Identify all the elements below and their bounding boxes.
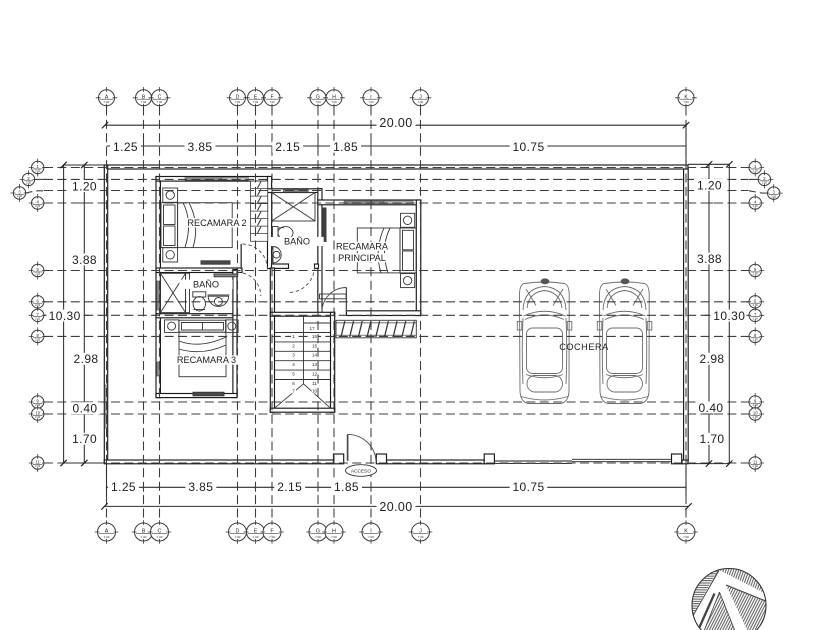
svg-text:2.00: 2.00 (753, 338, 759, 342)
svg-text:7.00: 7.00 (157, 535, 163, 539)
svg-text:2.00: 2.00 (35, 169, 41, 173)
svg-text:COCHERA: COCHERA (559, 342, 609, 352)
svg-text:2.00: 2.00 (753, 272, 759, 276)
svg-text:16: 16 (312, 334, 318, 339)
svg-text:RECAMARA: RECAMARA (336, 242, 389, 252)
svg-text:7.00: 7.00 (418, 100, 424, 104)
svg-text:7.00: 7.00 (104, 100, 110, 104)
svg-text:7.00: 7.00 (683, 100, 689, 104)
svg-text:4: 4 (292, 362, 295, 367)
svg-text:1.70: 1.70 (72, 432, 97, 446)
svg-text:2.00: 2.00 (17, 194, 23, 198)
svg-text:7.00: 7.00 (141, 535, 147, 539)
svg-text:7.00: 7.00 (315, 535, 321, 539)
svg-text:10.30: 10.30 (49, 309, 81, 323)
svg-text:1.85: 1.85 (334, 480, 359, 494)
svg-text:7.00: 7.00 (418, 535, 424, 539)
svg-text:10.75: 10.75 (512, 140, 544, 154)
svg-text:17: 17 (309, 326, 315, 331)
svg-text:2: 2 (292, 343, 295, 348)
svg-text:11: 11 (753, 460, 758, 465)
svg-text:3: 3 (292, 353, 295, 358)
svg-text:3.85: 3.85 (188, 480, 213, 494)
svg-text:10: 10 (753, 411, 758, 416)
svg-text:2.00: 2.00 (762, 181, 768, 185)
svg-text:7.00: 7.00 (157, 100, 163, 104)
svg-text:H: H (332, 94, 336, 100)
svg-text:J: J (419, 529, 422, 535)
svg-text:2.15: 2.15 (275, 140, 300, 154)
svg-text:F: F (270, 94, 273, 100)
svg-text:7.00: 7.00 (235, 535, 241, 539)
svg-text:10: 10 (312, 389, 318, 394)
svg-text:7.00: 7.00 (253, 100, 259, 104)
svg-text:10.30: 10.30 (713, 309, 745, 323)
svg-text:1.70: 1.70 (700, 432, 725, 446)
svg-text:1.20: 1.20 (697, 178, 722, 192)
svg-text:7.00: 7.00 (269, 100, 275, 104)
svg-text:5: 5 (292, 372, 295, 377)
svg-text:7.00: 7.00 (253, 535, 259, 539)
svg-text:2.15: 2.15 (277, 480, 302, 494)
svg-text:2.00: 2.00 (35, 204, 41, 208)
svg-text:11: 11 (312, 381, 317, 386)
svg-text:1.25: 1.25 (111, 480, 136, 494)
svg-text:7: 7 (292, 389, 295, 394)
svg-text:A: A (105, 529, 109, 535)
svg-text:K: K (684, 529, 688, 535)
svg-text:3.85: 3.85 (188, 140, 213, 154)
svg-text:7.00: 7.00 (269, 535, 275, 539)
svg-text:G: G (316, 94, 320, 100)
svg-text:7.00: 7.00 (331, 100, 337, 104)
svg-text:1.20: 1.20 (72, 179, 97, 193)
svg-text:14: 14 (312, 353, 318, 358)
svg-text:2.00: 2.00 (35, 317, 41, 321)
svg-text:2.00: 2.00 (26, 181, 32, 185)
svg-text:RECAMARA 2: RECAMARA 2 (187, 218, 246, 228)
svg-text:I: I (370, 94, 371, 100)
svg-text:20.00: 20.00 (379, 500, 412, 514)
svg-text:1.25: 1.25 (113, 140, 138, 154)
svg-text:12: 12 (312, 372, 318, 377)
svg-text:2.00: 2.00 (753, 204, 759, 208)
svg-text:0.40: 0.40 (699, 401, 724, 415)
svg-text:7.00: 7.00 (331, 535, 337, 539)
svg-text:E: E (254, 529, 258, 535)
svg-text:15: 15 (312, 343, 318, 348)
svg-text:2.98: 2.98 (700, 352, 725, 366)
svg-text:D: D (236, 529, 240, 535)
svg-text:2.00: 2.00 (753, 415, 759, 419)
svg-text:2.00: 2.00 (35, 272, 41, 276)
svg-text:20.00: 20.00 (379, 116, 412, 130)
svg-text:7.00: 7.00 (368, 100, 374, 104)
svg-text:BAÑO: BAÑO (284, 237, 310, 247)
svg-text:2.00: 2.00 (753, 317, 759, 321)
svg-text:B: B (142, 529, 146, 535)
svg-text:13: 13 (312, 362, 318, 367)
svg-text:2.98: 2.98 (74, 352, 99, 366)
svg-text:PRINCIPAL: PRINCIPAL (338, 253, 386, 263)
svg-text:H: H (332, 529, 336, 535)
svg-text:2.00: 2.00 (35, 338, 41, 342)
svg-text:7.00: 7.00 (315, 100, 321, 104)
svg-text:6: 6 (292, 381, 295, 386)
svg-text:ACCESO: ACCESO (351, 468, 372, 474)
svg-text:10: 10 (35, 411, 40, 416)
svg-text:11: 11 (36, 460, 41, 465)
svg-text:2.00: 2.00 (35, 415, 41, 419)
svg-text:2.00: 2.00 (753, 169, 759, 173)
svg-text:BAÑO: BAÑO (193, 280, 219, 290)
svg-text:I: I (370, 529, 372, 535)
svg-text:1: 1 (292, 334, 295, 339)
svg-text:C: C (158, 94, 162, 100)
svg-text:RECAMARA 3: RECAMARA 3 (177, 355, 236, 365)
svg-text:G: G (316, 529, 320, 535)
svg-text:C: C (158, 529, 162, 535)
svg-text:7.00: 7.00 (141, 100, 147, 104)
svg-text:0.40: 0.40 (73, 401, 98, 415)
svg-text:3.88: 3.88 (72, 253, 97, 267)
svg-text:2.00: 2.00 (771, 194, 777, 198)
svg-text:2.00: 2.00 (753, 464, 759, 468)
svg-text:7.00: 7.00 (683, 535, 689, 539)
svg-text:D: D (236, 94, 240, 100)
svg-text:3.88: 3.88 (697, 252, 722, 266)
svg-text:7.00: 7.00 (104, 535, 110, 539)
svg-text:10.75: 10.75 (512, 480, 544, 494)
svg-text:7.00: 7.00 (368, 535, 374, 539)
svg-text:7.00: 7.00 (235, 100, 241, 104)
svg-text:1.85: 1.85 (333, 140, 358, 154)
svg-text:2.00: 2.00 (35, 464, 41, 468)
